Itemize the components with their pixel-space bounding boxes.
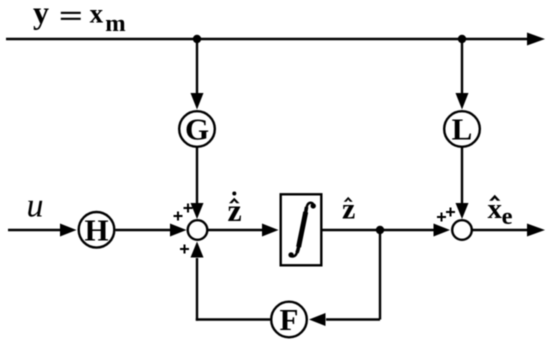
arrowhead into S2 from L (456, 203, 469, 219)
svg-text:m: m (105, 10, 125, 37)
wire: from H to summing junction S1 (116, 229, 172, 231)
wire: from integrator to summing junction S2 (321, 229, 434, 231)
wire: vertical from top line down to G (196, 39, 198, 95)
node: junction dot on top line above L (458, 35, 466, 43)
arrowhead into S1 from G (191, 203, 204, 219)
wire: top horizontal line y=xm bus (6, 38, 529, 40)
node: junction dot after integrator (376, 226, 384, 234)
arrowhead into S1 from below (191, 242, 204, 258)
wire: from F left to corner below S1 (196, 318, 270, 320)
integral sign bottom hook (291, 252, 298, 256)
wire: vertical from L down to summing junction S2 (461, 147, 463, 205)
svg-text:x: x (90, 0, 104, 29)
node: junction dot on top line above G (193, 35, 201, 43)
svg-text:u: u (27, 188, 44, 225)
wire: from S1 to integrator (208, 229, 264, 231)
svg-text:H: H (84, 212, 108, 247)
plus sign upper (right of pair, next to down arrow) (184, 204, 193, 213)
gain block G (179, 111, 215, 147)
wire: vertical from junction dot down to feedback line (379, 230, 381, 320)
plus sign below S1 (feedback input) (180, 245, 189, 254)
svg-text:e: e (502, 203, 513, 230)
wire: output from S2 (472, 229, 529, 231)
plus sign lower-left of pair (174, 212, 183, 221)
plus sign lower-left at S2 (437, 213, 446, 222)
integral sign stem (299, 212, 306, 247)
wire: vertical from G down to summing junction S1 (196, 147, 198, 205)
label zhat after integrator (342, 193, 355, 226)
arrowhead into S2 (434, 224, 451, 237)
arrowhead into H (60, 224, 77, 237)
svg-text:z: z (228, 192, 242, 228)
plus sign upper-right at S2 (446, 208, 455, 217)
arrowhead at output (527, 224, 545, 237)
arrowhead into G (191, 93, 204, 110)
gain block L (444, 111, 480, 147)
label y = x_m (33, 0, 126, 37)
label zhat-dot (derivative of z estimate) (228, 192, 242, 229)
wire: input line u into H (8, 229, 62, 231)
wire: horizontal feedback line to F (326, 318, 380, 320)
integrator block (281, 194, 322, 265)
gain block F (271, 302, 307, 338)
wire: vertical from top line down to L (461, 39, 463, 95)
arrowhead into integrator (262, 224, 279, 237)
arrowhead into S1 from H (170, 224, 187, 237)
label xhat_e output (488, 193, 513, 230)
integral sign top hook (307, 203, 314, 208)
arrowhead at right end of top line (527, 33, 545, 46)
wire: vertical up from corner to S1 (196, 258, 198, 321)
summing junction S2 (452, 220, 472, 240)
arrowhead into F (pointing left) (309, 313, 326, 326)
gain block H (79, 212, 115, 248)
svg-text:G: G (185, 112, 209, 147)
svg-text:L: L (452, 112, 473, 147)
svg-text:F: F (280, 302, 299, 337)
summing junction S1 (188, 220, 208, 240)
arrowhead into L (456, 93, 469, 110)
svg-text:y: y (33, 0, 49, 30)
